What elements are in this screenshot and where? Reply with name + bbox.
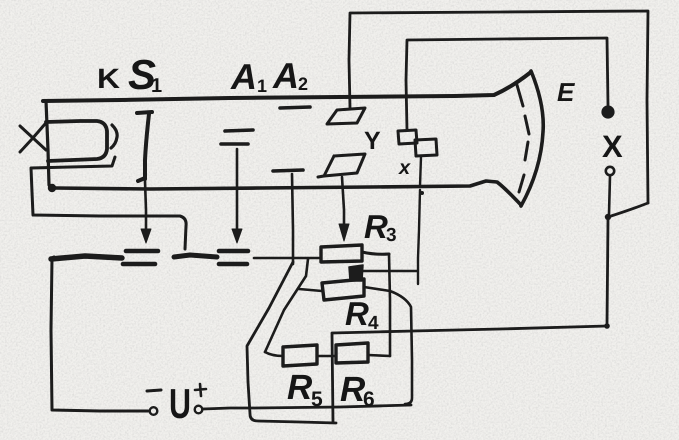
svg-text:1: 1 (257, 76, 267, 96)
svg-text:R: R (287, 368, 313, 407)
svg-text:Y: Y (364, 127, 381, 155)
svg-text:3: 3 (386, 225, 397, 246)
svg-text:K: K (97, 63, 120, 94)
svg-text:U: U (169, 380, 191, 427)
svg-text:A: A (272, 55, 299, 96)
svg-text:R: R (364, 208, 388, 245)
svg-text:A: A (230, 56, 257, 97)
svg-text:E: E (557, 77, 575, 107)
svg-text:6: 6 (363, 388, 375, 411)
svg-text:5: 5 (311, 388, 323, 411)
svg-text:4: 4 (368, 313, 379, 334)
svg-text:2: 2 (298, 74, 308, 94)
svg-text:1: 1 (151, 75, 162, 97)
svg-text:X: X (602, 129, 623, 164)
svg-text:x: x (398, 157, 411, 179)
svg-text:R: R (345, 295, 369, 332)
